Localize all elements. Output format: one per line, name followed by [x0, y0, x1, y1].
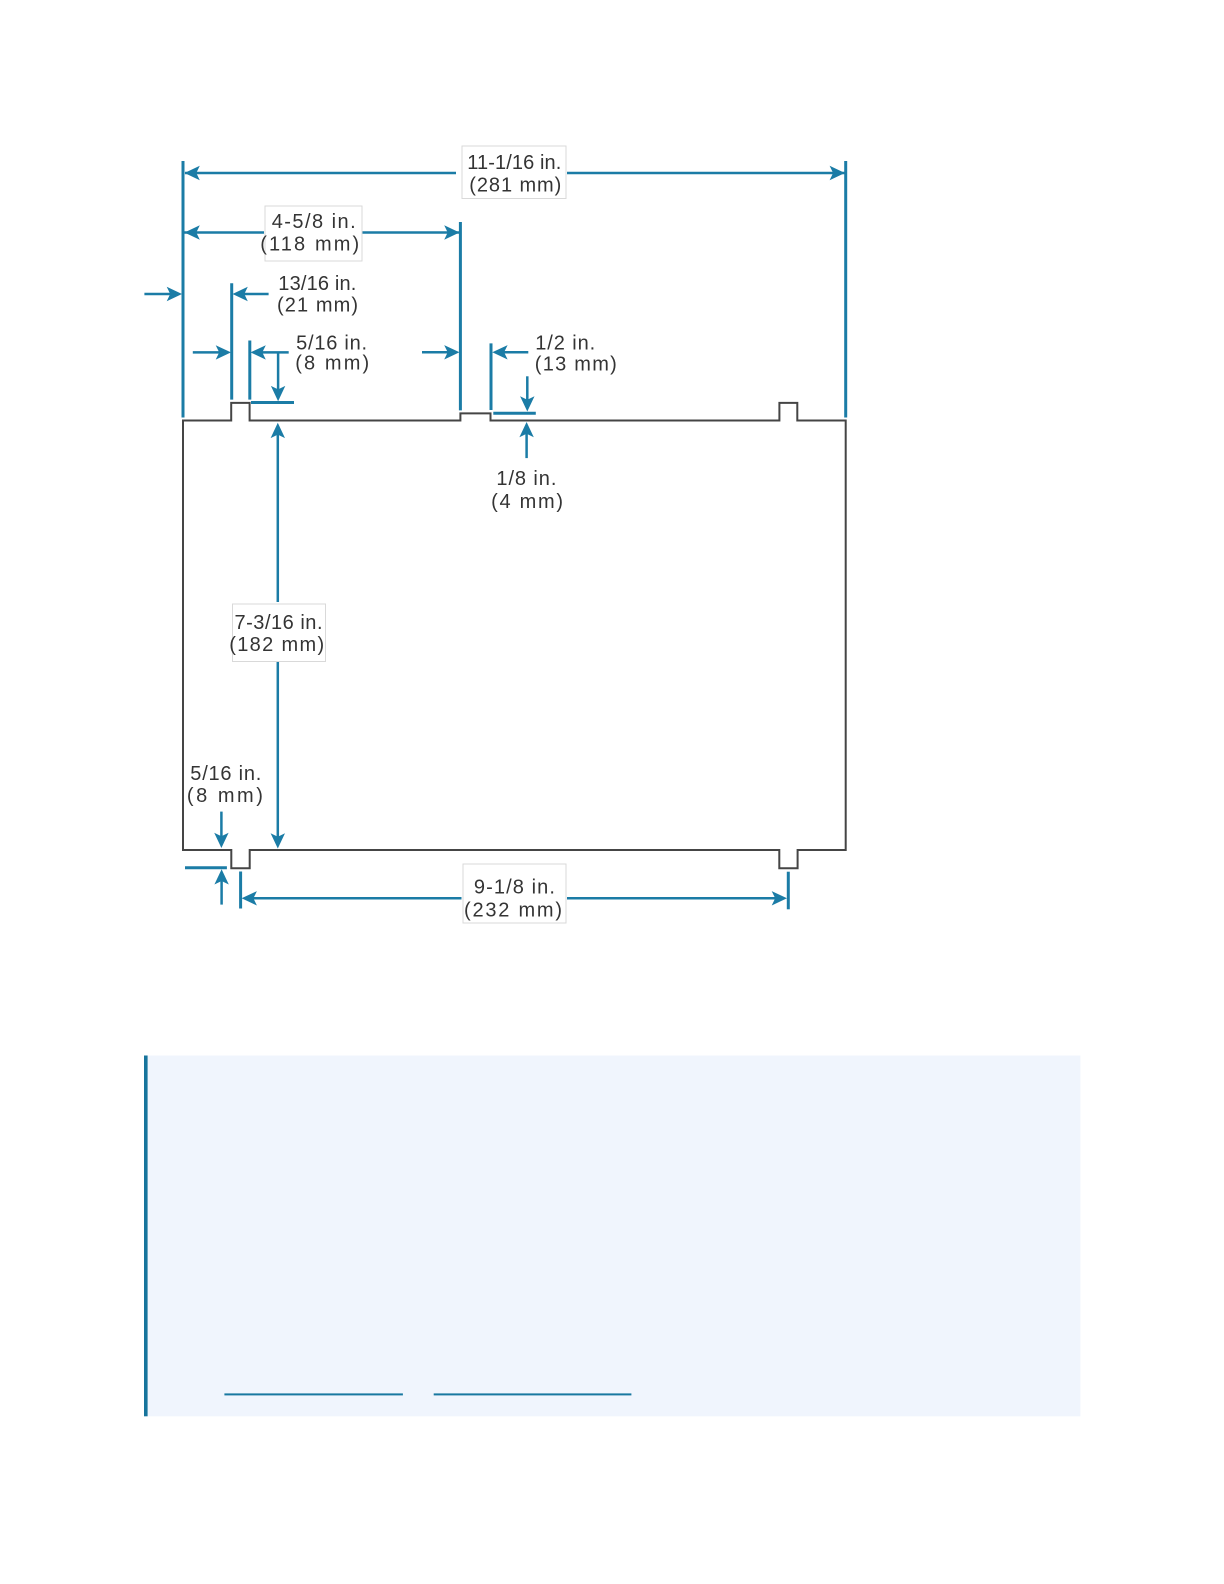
bottom tab underside reference line — [185, 866, 227, 869]
link underline 2 — [434, 1393, 632, 1395]
dimension 4-5/8 line — [185, 225, 460, 239]
svg-text:(281 mm): (281 mm) — [469, 174, 561, 196]
panel outline — [183, 403, 846, 868]
link underline 1 — [224, 1393, 403, 1395]
dimension 1/2 arrows — [422, 345, 528, 359]
dimension 9-1/8 line — [242, 891, 787, 905]
svg-text:(21 mm): (21 mm) — [277, 294, 358, 316]
label 5/16 top — [295, 332, 369, 374]
label 11-1/16 — [462, 146, 566, 199]
svg-text:4-5/8 in.: 4-5/8 in. — [272, 211, 356, 233]
extension line tab2 right — [490, 343, 493, 410]
dimension 11-1/16 line — [185, 166, 845, 180]
tab2 height arrows 1/8 — [519, 376, 534, 458]
svg-text:5/16 in.: 5/16 in. — [190, 763, 261, 785]
svg-text:(8 mm): (8 mm) — [295, 352, 369, 374]
label 1/2 — [535, 332, 617, 375]
svg-text:13/16 in.: 13/16 in. — [278, 273, 356, 295]
label 7-3/16 — [229, 604, 325, 662]
extension line tab2 left — [459, 222, 462, 410]
dimension 7-3/16 line — [271, 423, 285, 849]
extension line left edge — [182, 161, 185, 418]
note box left border — [144, 1056, 148, 1417]
svg-text:7-3/16 in.: 7-3/16 in. — [235, 612, 323, 634]
svg-text:11-1/16 in.: 11-1/16 in. — [467, 152, 561, 174]
svg-text:(118 mm): (118 mm) — [260, 233, 359, 255]
extension line right edge — [844, 161, 847, 418]
bottom 5/16 arrows — [214, 812, 229, 905]
svg-text:(4 mm): (4 mm) — [491, 491, 563, 513]
svg-text:5/16 in.: 5/16 in. — [296, 332, 367, 354]
label 9-1/8 — [463, 864, 566, 923]
svg-text:(13 mm): (13 mm) — [535, 353, 617, 375]
extension line bottom tab2 center — [787, 872, 790, 910]
label 1/8 — [491, 468, 563, 513]
extension line tab1 right — [248, 341, 251, 400]
svg-text:1/2 in.: 1/2 in. — [535, 332, 595, 354]
svg-text:1/8 in.: 1/8 in. — [496, 468, 556, 490]
extension line bottom tab1 center — [239, 872, 242, 909]
dimension 5/16 top arrows — [193, 345, 289, 359]
svg-text:(182 mm): (182 mm) — [229, 634, 324, 656]
dimension 13/16 arrows — [144, 287, 268, 301]
tab1 top reference line — [251, 401, 294, 404]
tab1 height top arrow — [271, 354, 285, 402]
svg-text:(8 mm): (8 mm) — [187, 785, 263, 807]
svg-text:(232 mm): (232 mm) — [464, 900, 562, 922]
extension line tab1 left — [230, 283, 233, 399]
svg-text:9-1/8 in.: 9-1/8 in. — [474, 877, 555, 899]
label 13/16 — [277, 273, 358, 316]
tab2 top reference line — [493, 412, 536, 415]
note box background — [144, 1056, 1080, 1417]
label bottom 5/16 — [187, 763, 263, 807]
label 4-5/8 — [260, 206, 362, 261]
